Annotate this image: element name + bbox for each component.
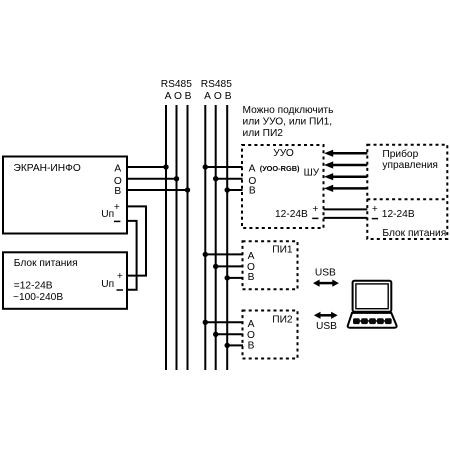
svg-text:~100-240В: ~100-240В: [13, 292, 63, 303]
laptop base: [348, 313, 397, 328]
svg-text:Uп: Uп: [101, 209, 114, 220]
laptop screen inner: [356, 284, 388, 309]
junction dot: [225, 343, 230, 348]
dashed box control device (Pribor upravleniya): [367, 145, 447, 239]
bus1 wire A vertical: [165, 105, 167, 370]
laptop icon: [348, 281, 397, 328]
bus2 wire O vertical: [215, 105, 217, 370]
bus2 wire A vertical: [204, 105, 206, 370]
wire PI2 A to bus2: [205, 321, 243, 323]
dashed box PI2: [243, 311, 298, 359]
junction dot bus2 O: [213, 176, 218, 181]
junction dot bus2 A: [203, 164, 208, 169]
junction dot: [213, 332, 218, 337]
arrow 4: [331, 187, 367, 190]
wire PI2 B to bus2: [227, 344, 243, 346]
svg-text:ШУ: ШУ: [304, 168, 320, 179]
wire PI1 O to bus2: [216, 265, 243, 267]
svg-text:Можно подключить: Можно подключить: [243, 105, 334, 116]
svg-text:+: +: [117, 271, 123, 282]
junction dot: [203, 252, 208, 257]
svg-text:УУО: УУО: [273, 148, 294, 159]
svg-text:О: О: [174, 91, 182, 102]
wire PI2 O to bus2: [216, 333, 243, 335]
svg-text:=12-24В: =12-24В: [14, 280, 53, 291]
wire EKRAN plus to power supply: [128, 206, 147, 275]
svg-text:А: А: [248, 319, 255, 330]
svg-text:12-24В: 12-24В: [275, 209, 308, 220]
svg-text:USB: USB: [316, 321, 337, 332]
bus1 wire O vertical: [176, 105, 178, 370]
svg-text:В: В: [248, 340, 255, 351]
junction dot bus2 B: [225, 187, 230, 192]
svg-text:USB: USB: [315, 268, 336, 279]
svg-text:О: О: [214, 91, 222, 102]
svg-text:RS485: RS485: [201, 79, 232, 90]
UUO pin label minus: [312, 217, 318, 219]
control PSU pin minus: [372, 218, 378, 220]
laptop keys: [353, 318, 360, 324]
svg-text:управления: управления: [382, 160, 438, 171]
arrow 2: [331, 164, 367, 167]
svg-text:А: А: [204, 91, 211, 102]
dashed divider: [367, 198, 447, 200]
wire PI1 A to bus2: [205, 253, 243, 255]
pin label minus: [114, 220, 120, 222]
svg-text:А: А: [165, 91, 172, 102]
control arrows from control device to UUO: [324, 150, 367, 192]
junction dot bus1 B: [185, 187, 190, 192]
wire UUO O to bus2: [216, 178, 243, 180]
svg-text:или ПИ2: или ПИ2: [243, 128, 284, 139]
svg-text:Прибор: Прибор: [382, 148, 418, 160]
svg-text:или УУО, или ПИ1,: или УУО, или ПИ1,: [243, 116, 333, 127]
wire PI1 B to bus2: [227, 277, 243, 279]
svg-text:ПИ2: ПИ2: [272, 315, 293, 326]
svg-text:В: В: [248, 272, 255, 283]
wire EKRAN B to bus1: [128, 189, 188, 191]
laptop keys line: [354, 320, 391, 322]
wire EKRAN O to bus1: [128, 178, 177, 180]
wire UUO plus to control power supply: [324, 208, 368, 210]
svg-text:В: В: [114, 186, 121, 197]
dashed box UUO: [242, 145, 324, 228]
svg-text:А: А: [114, 164, 121, 175]
svg-text:+: +: [372, 204, 378, 215]
wire EKRAN A to bus1: [128, 166, 166, 168]
junction dot: [203, 320, 208, 325]
junction dot: [225, 275, 230, 280]
junction dot bus1 O: [174, 176, 179, 181]
junction dot bus1 A: [163, 164, 168, 169]
pin label minus: [117, 289, 124, 291]
arrow 3: [331, 175, 367, 178]
svg-text:В: В: [225, 91, 232, 102]
box EKRAN-INFO: [3, 157, 127, 234]
laptop screen outer: [353, 281, 392, 312]
svg-text:+: +: [312, 204, 318, 215]
svg-text:В: В: [185, 91, 192, 102]
svg-text:ЭКРАН-ИНФО: ЭКРАН-ИНФО: [14, 163, 81, 174]
svg-text:Uп: Uп: [101, 279, 114, 290]
wire UUO A to bus2: [205, 166, 242, 168]
svg-text:12-24В: 12-24В: [382, 209, 415, 220]
svg-text:А: А: [248, 251, 255, 262]
svg-text:Блок питания: Блок питания: [14, 258, 78, 269]
dashed box PI1: [243, 241, 298, 289]
wire EKRAN minus to power supply: [128, 221, 137, 290]
svg-text:Блок питания: Блок питания: [382, 228, 446, 239]
svg-text:RS485: RS485: [161, 79, 192, 90]
svg-text:+: +: [114, 202, 120, 213]
bus1 wire B vertical: [187, 105, 189, 370]
wire UUO B to bus2: [227, 189, 242, 191]
USB double arrow PI2: [314, 312, 338, 319]
wire UUO minus to control power supply: [324, 217, 368, 219]
svg-text:А: А: [249, 164, 256, 175]
USB double arrow PI1: [313, 280, 339, 287]
box power supply (Blok pitaniya): [3, 252, 127, 308]
arrow 1: [331, 152, 367, 155]
svg-text:(УОО-RGB): (УОО-RGB): [260, 164, 300, 173]
bus2 wire B vertical: [226, 105, 228, 370]
junction dot: [213, 264, 218, 269]
svg-text:ПИ1: ПИ1: [272, 245, 293, 256]
svg-text:В: В: [249, 186, 256, 197]
